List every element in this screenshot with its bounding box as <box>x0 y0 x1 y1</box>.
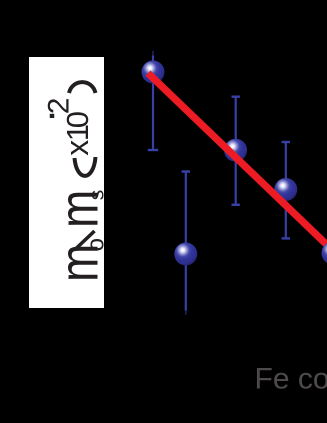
error bar P3 <box>282 142 290 238</box>
y-axis label white box <box>29 57 104 308</box>
data point P1 ball <box>142 61 165 84</box>
data point P4 ball (clipped at right edge) <box>322 242 327 265</box>
svg-text:x: x <box>59 140 95 156</box>
data point P5 ball (outlier) <box>174 243 197 266</box>
data point P2 ball <box>224 139 247 162</box>
error bar P2 <box>232 97 240 205</box>
error bar P1 <box>148 51 158 150</box>
svg-text:o: o <box>83 238 110 251</box>
y-axis label close paren (rotated arc) <box>69 82 96 93</box>
svg-text:Fe con: Fe con <box>255 363 327 396</box>
y-axis label superscript -2 <box>50 114 55 118</box>
svg-text:s: s <box>86 190 109 201</box>
y-axis label fraction slash <box>75 231 95 250</box>
red fit line <box>148 73 326 244</box>
error bar P5 <box>182 172 190 315</box>
y-axis label open paren (rotated arc) <box>75 157 96 176</box>
data point P3 ball <box>274 178 297 201</box>
svg-text:2: 2 <box>43 98 76 115</box>
